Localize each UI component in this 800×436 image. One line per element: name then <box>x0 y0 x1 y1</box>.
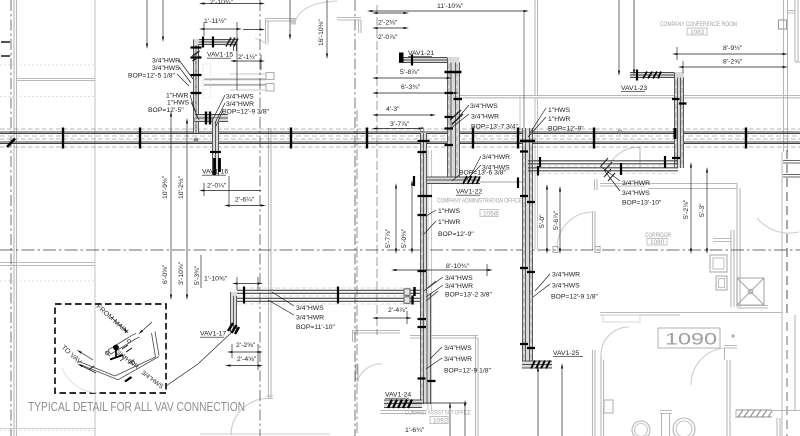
door arc bottom left of 1090 <box>601 327 629 355</box>
dim vertical 5'-3 3/4 <box>200 255 202 288</box>
svg-text:VAV1-17: VAV1-17 <box>200 331 226 338</box>
svg-text:5'-0⅜": 5'-0⅜" <box>401 228 408 248</box>
corridor bottom long wall y313 <box>600 313 783 316</box>
pipe C riser <box>522 128 533 366</box>
dim verticals VAV1-25 <box>537 371 539 436</box>
dim ref 16'-10 3/8 <box>326 0 328 54</box>
svg-text:2'-6¼": 2'-6¼" <box>235 197 255 204</box>
svg-text:3/4"HWR: 3/4"HWR <box>444 356 472 363</box>
wall under VAV1-15 room <box>230 74 266 90</box>
right lower dashed wall area <box>781 152 783 436</box>
svg-text:5'-3": 5'-3" <box>699 203 706 217</box>
svg-text:8'-2⅝": 8'-2⅝" <box>723 59 743 66</box>
room1090 area upper walls <box>519 96 521 136</box>
svg-text:VAV1-23: VAV1-23 <box>621 85 647 92</box>
dim 2'-1 1/2 <box>235 60 260 62</box>
hatch VAV1-25 black <box>531 361 550 369</box>
joint node upper <box>194 118 199 123</box>
svg-text:CORRIDOR: CORRIDOR <box>645 232 671 239</box>
svg-text:1092: 1092 <box>433 417 448 424</box>
dim refs top-left <box>146 0 148 44</box>
svg-text:2'-2⅝": 2'-2⅝" <box>236 342 256 349</box>
svg-text:BOP=13'-7 3/4": BOP=13'-7 3/4" <box>471 124 519 131</box>
detail arrow to vav lower <box>82 366 96 373</box>
link VAV1-22 to pipe C <box>480 181 522 183</box>
wall segment x337-361 top <box>337 18 361 34</box>
detail arrow to vav upper <box>81 353 93 361</box>
svg-text:5'-2⅞": 5'-2⅞" <box>683 199 690 219</box>
svg-text:BOP=12'-9": BOP=12'-9" <box>438 231 474 238</box>
right wall stubs dark <box>783 161 800 178</box>
svg-text:VAV1-22: VAV1-22 <box>456 189 482 196</box>
dim 8'-10 3/4 <box>396 269 488 271</box>
dim arrows at left grid <box>1 42 10 56</box>
pipe VAV1-15 top horizontal run <box>193 39 237 45</box>
lateral right dashes <box>528 166 678 174</box>
svg-text:6'-3¾": 6'-3¾" <box>401 84 421 91</box>
svg-text:8'-10¾": 8'-10¾" <box>446 263 470 270</box>
svg-text:3/4"HWR: 3/4"HWR <box>152 58 180 65</box>
main HWS pipe dashed top <box>0 128 800 130</box>
dim 2'-0 1/4 <box>204 190 261 192</box>
dim 8'-9 1/2 <box>677 53 783 55</box>
leader BOP 13-10 labels <box>600 166 620 191</box>
dim ref vertical x377 <box>376 5 378 335</box>
dim 2'-2 5/8 <box>232 351 258 353</box>
lateral dashed top <box>237 287 420 289</box>
svg-text:1"HWS: 1"HWS <box>548 107 571 114</box>
grid line horizontal y250 <box>0 249 800 251</box>
dim 1'-11 1/2 <box>204 28 237 30</box>
svg-text:BOP=12'-9 1/8": BOP=12'-9 1/8" <box>551 294 599 301</box>
svg-text:BOP=12'-9": BOP=12'-9" <box>548 126 584 133</box>
dim 8'-2 5/8 <box>683 66 783 68</box>
dim top-left cut <box>204 3 260 5</box>
conference right wall x785 <box>784 0 788 152</box>
leader VAV1-15 left labels <box>177 60 193 86</box>
svg-text:BOP=12'-9 1/8": BOP=12'-9 1/8" <box>444 368 492 375</box>
valve ticks VAV1-15 horizontal <box>203 37 213 48</box>
corridor top wall y96 <box>455 96 800 98</box>
valve ticks VAV1-16 branch <box>206 112 210 125</box>
svg-text:16'-10⅜": 16'-10⅜" <box>318 19 325 46</box>
wall vertical x535 lower <box>535 98 538 249</box>
dim 5'-8 7/8 <box>377 77 447 79</box>
room wall right of detail <box>352 330 400 342</box>
grid line vertical B x260 <box>259 0 261 436</box>
svg-text:1"HWR: 1"HWR <box>438 219 461 226</box>
pipe VAV1-21 horizontal run <box>399 57 459 63</box>
svg-text:10'-2½": 10'-2½" <box>177 175 185 199</box>
svg-text:VAV1-15: VAV1-15 <box>207 52 233 59</box>
svg-text:1090: 1090 <box>665 331 717 349</box>
hatch VAV1-15 riser <box>193 51 200 61</box>
hatch VAV1-22 black <box>463 176 480 184</box>
detail pipe HWS bottom segment <box>115 357 159 380</box>
valve black VAV1-21 left <box>399 53 404 63</box>
svg-text:COMPANY ADMINISTRATION OFFICE: COMPANY ADMINISTRATION OFFICE <box>437 198 522 205</box>
dim 4'-3 <box>377 114 431 116</box>
hatch VAV1-21 riser <box>450 110 463 124</box>
svg-text:3/4"HWS: 3/4"HWS <box>622 190 650 197</box>
svg-text:BOP=13'-2 3/8": BOP=13'-2 3/8" <box>445 292 493 299</box>
lateral dashes <box>237 296 420 304</box>
svg-text:COMPANY ASSIST SCT OFFICE: COMPANY ASSIST SCT OFFICE <box>405 410 471 417</box>
dim 1'-10 5/8 <box>237 283 258 285</box>
pipe VAV1-23 riser pair <box>674 72 684 168</box>
svg-text:3/4"HWS: 3/4"HWS <box>445 275 473 282</box>
wall top middle door jambs <box>266 19 297 44</box>
leader 12-9 1/8 labels <box>533 274 550 297</box>
walls around shaft <box>713 230 768 308</box>
dim verticals assist office <box>449 407 451 436</box>
door jamb boxes <box>266 73 274 80</box>
svg-text:1"HWR: 1"HWR <box>166 93 189 100</box>
svg-text:5'-0": 5'-0" <box>539 214 546 228</box>
svg-text:VAV1-21: VAV1-21 <box>408 50 434 57</box>
svg-text:11'-10⅝": 11'-10⅝" <box>437 3 464 10</box>
wall horizontal y263 left room <box>0 263 95 266</box>
main HWS pipe solid pair <box>0 132 800 134</box>
valve ticks VAV1-15 riser <box>191 48 202 94</box>
svg-text:1"HWS: 1"HWS <box>167 100 190 107</box>
dim verticals x547 x560 <box>546 189 548 249</box>
small circle node on band <box>618 130 622 134</box>
detail pipe TO VAV segment <box>78 361 118 380</box>
svg-text:2'-4⅝": 2'-4⅝" <box>237 356 257 363</box>
dim verticals mid rotated <box>395 188 397 249</box>
valve tick VAV1-16 drop <box>210 151 221 153</box>
hatch VAV1-15 pipe end <box>226 38 238 47</box>
joint node lower <box>194 138 199 143</box>
admin office door leaf <box>593 211 596 250</box>
detail pipe HWS right segment <box>152 332 160 358</box>
svg-text:1080: 1080 <box>650 239 665 246</box>
svg-text:10'-9⅜": 10'-9⅜" <box>162 175 169 199</box>
svg-text:2'-2⅜": 2'-2⅜" <box>378 20 398 27</box>
PIPE-LAYER <box>191 37 687 409</box>
main HWR pipe solid pair <box>0 142 800 144</box>
svg-text:5'-7⅞": 5'-7⅞" <box>385 228 392 248</box>
svg-text:COMPANY CONFERENCE ROOM: COMPANY CONFERENCE ROOM <box>660 21 737 28</box>
svg-text:VAV1-24: VAV1-24 <box>385 392 411 399</box>
main HWR pipe dashed <box>0 138 800 140</box>
svg-text:BOP=12'-5 1/8": BOP=12'-5 1/8" <box>128 73 176 80</box>
wall vertical x535 conference left <box>535 0 538 96</box>
wall vertical x737 <box>737 184 740 308</box>
hatch pipe A at junction <box>424 281 438 301</box>
svg-text:3/4"HWS: 3/4"HWS <box>226 94 254 101</box>
room 1090 big tag <box>658 328 720 348</box>
dim 2'-4 5/8 <box>230 365 258 367</box>
detail hatch small left <box>89 366 94 370</box>
svg-text:3/4"HWR: 3/4"HWR <box>445 283 473 290</box>
door arc bottom left middle <box>231 399 268 436</box>
leader lateral labels <box>268 292 294 315</box>
valve ticks at pipe A junction <box>413 287 415 305</box>
dim verticals right rotated <box>690 167 692 249</box>
svg-text:2'-0⅞": 2'-0⅞" <box>378 34 398 41</box>
leader VAV1-17 <box>166 332 232 386</box>
pipe lateral right lower HWR <box>528 168 678 171</box>
valve ticks lateral right <box>538 157 540 176</box>
pipe VAV1-22 horizontal <box>421 177 480 184</box>
valve ticks VAV1-21 riser <box>445 71 462 74</box>
dim ref vertical x524 <box>523 11 525 131</box>
pipe lateral right upper HWS <box>528 161 678 164</box>
svg-text:1'-11½": 1'-11½" <box>204 17 227 25</box>
wall 1090 door <box>724 346 737 361</box>
svg-text:2'-10¾": 2'-10¾" <box>210 0 234 6</box>
pipe A riser upper <box>420 133 427 293</box>
leader 1in HWS HWR mid <box>528 108 546 137</box>
svg-text:BOP=13'-6 3/8": BOP=13'-6 3/8" <box>459 170 507 177</box>
svg-text:3'-7⅞": 3'-7⅞" <box>390 121 410 128</box>
wall horizontal y79 left room <box>16 79 95 81</box>
detail flange circles <box>105 351 108 354</box>
svg-text:5'-3¾": 5'-3¾" <box>194 265 201 285</box>
pipe long lateral lower HWR <box>237 298 420 301</box>
svg-text:3/4"HWS: 3/4"HWS <box>444 345 472 352</box>
dotted ceiling lines left <box>0 65 95 431</box>
dim vertical 10'-9 3/8 <box>170 116 172 295</box>
far right wall <box>788 0 800 62</box>
top right door arc <box>757 218 799 233</box>
pipe VAV1-21 riser pair <box>447 57 460 177</box>
valve ticks long lateral mid <box>337 287 339 304</box>
DETAIL-LAYER <box>55 303 166 393</box>
admin office door arc <box>557 212 592 248</box>
wall centerline gray dashed <box>0 135 800 137</box>
hatched wall bottom right <box>736 410 772 417</box>
bottom right walls <box>736 315 800 436</box>
room 1083 tag <box>687 28 707 35</box>
elevator lobby shapes <box>710 255 727 272</box>
grid line vertical C x356 <box>354 0 356 436</box>
svg-text:4'-3": 4'-3" <box>386 106 400 113</box>
svg-text:3'-10⅝": 3'-10⅝" <box>178 261 185 285</box>
svg-text:3/4"HWR: 3/4"HWR <box>482 154 510 161</box>
elevator shaft with X <box>737 278 764 305</box>
hatch VAV1-16 end black <box>215 158 220 175</box>
wall vertical x95 <box>94 0 96 436</box>
bathroom walls <box>660 411 672 436</box>
svg-text:1083: 1083 <box>690 29 705 36</box>
node pipeA top <box>420 128 424 132</box>
BAND-LAYER <box>0 128 800 149</box>
svg-text:BOP=12'-5": BOP=12'-5" <box>148 107 184 114</box>
pipe VAV1-24 elbow <box>384 400 422 408</box>
corridor bottom wall y185 <box>600 184 737 189</box>
detail box dashed border <box>55 304 166 393</box>
room 1058 tag <box>480 210 498 217</box>
svg-text:1'-10⅝": 1'-10⅝" <box>204 276 228 283</box>
detail tick on bottom pipe <box>125 377 132 382</box>
grid line vertical A x11 <box>10 0 12 436</box>
stub VAV1-15 elbow down <box>234 45 237 52</box>
door arc right of band <box>608 147 640 168</box>
door arc top middle <box>296 1 337 20</box>
toilet 2 <box>673 418 695 436</box>
svg-text:2'-4⅞": 2'-4⅞" <box>388 307 408 314</box>
dim 2'-6 1/4 <box>229 205 261 207</box>
svg-text:1'-6¾": 1'-6¾" <box>405 427 425 434</box>
leader 12-9 bottom labels <box>426 347 442 369</box>
svg-text:BOP=11'-10": BOP=11'-10" <box>296 324 335 331</box>
hatch VAV1-23 black <box>643 72 661 79</box>
pipe VAV1-15 riser <box>193 39 199 133</box>
valve ticks pipe A <box>418 141 433 327</box>
valve tick VAV1-23 <box>636 70 638 81</box>
wall left vertical pair <box>14 0 17 436</box>
wall box on conference wall <box>779 20 787 29</box>
dim refs conference top <box>618 0 620 71</box>
vav24 room wall <box>380 411 426 414</box>
svg-text:1"HWR: 1"HWR <box>548 116 571 123</box>
svg-text:3/4"HWS: 3/4"HWS <box>470 103 498 110</box>
band bottom dashed <box>0 146 800 148</box>
pipe VAV1-23 horizontal <box>630 72 684 78</box>
svg-text:3/4"HWR: 3/4"HWR <box>552 272 580 279</box>
svg-text:2'-1½": 2'-1½" <box>238 53 258 61</box>
leader VAV1-21 labels <box>450 105 469 129</box>
svg-text:3/4"HWR: 3/4"HWR <box>296 315 324 322</box>
pipe VAV1-17 drop <box>230 292 237 332</box>
detail door arc faint <box>62 368 98 393</box>
svg-text:BOP=12'-9 3/8": BOP=12'-9 3/8" <box>222 109 270 116</box>
valve tick VAV1-22 <box>413 176 415 186</box>
pipe VAV1-25 elbow <box>522 361 552 368</box>
leader 1in HWS pipeA <box>424 210 436 234</box>
pipe A riser lower <box>420 293 431 404</box>
band valve ticks <box>63 128 746 149</box>
door arc room 1090 <box>691 348 724 385</box>
wall vertical x428 admin left <box>428 150 432 410</box>
valve boxes VAV1-24 branch <box>404 289 410 296</box>
leader 1in labels left <box>190 95 199 120</box>
dotted duct outline <box>203 64 211 98</box>
svg-text:BOP=13'-10": BOP=13'-10" <box>622 200 662 207</box>
leader VAV1-22 labels <box>452 156 481 181</box>
dim 2'-2 3/8 <box>377 12 404 14</box>
node dot room 1090 <box>731 334 734 337</box>
valve ticks VAV1-23 riser <box>672 99 687 104</box>
pipe VAV1-16 branch horizontal <box>195 114 228 122</box>
hatch lateral right <box>601 158 615 181</box>
detail valve symbol <box>115 349 117 357</box>
svg-text:5'-6⅞": 5'-6⅞" <box>553 210 560 230</box>
assist office right wall <box>593 350 596 436</box>
detail arrow from main <box>111 317 125 330</box>
detail hatch on HWR <box>122 345 132 352</box>
svg-text:TYPICAL DETAIL FOR ALL VAV CON: TYPICAL DETAIL FOR ALL VAV CONNECTION <box>28 400 245 414</box>
detail arrow top right <box>142 322 152 331</box>
svg-text:3/4"HWS: 3/4"HWS <box>152 65 180 72</box>
dim 2'-4 7/8 <box>377 317 407 319</box>
valve tick VAV1-21 <box>411 55 413 66</box>
svg-text:3/4"HWS: 3/4"HWS <box>296 305 324 312</box>
dim base line assist office <box>400 402 467 404</box>
svg-text:8'-9½": 8'-9½" <box>723 44 743 52</box>
band junction mark left edge <box>7 139 15 148</box>
dim vertical 10'-2 1/2 <box>186 123 188 295</box>
leader 3/4 labels right of VAV1-15 <box>213 95 225 126</box>
wall x594 admin right <box>595 179 598 190</box>
detail pipe HWR elbow cap <box>107 350 112 356</box>
bottom edge walls <box>0 429 330 435</box>
room 1080 tag <box>647 239 667 246</box>
dim 11'-10 5/8 <box>372 10 524 12</box>
svg-text:1058: 1058 <box>483 210 498 217</box>
hatch VAV1-17 end black <box>228 323 239 334</box>
svg-text:5'-8⅞": 5'-8⅞" <box>400 69 420 76</box>
middle vertical wall x269 <box>267 128 274 399</box>
assist office walls <box>410 335 478 436</box>
hatch VAV1-24 black <box>388 400 412 409</box>
door arc x357 <box>357 364 382 382</box>
detail pipe HWR inner segment <box>108 334 140 355</box>
wall vertical x727 bottom <box>727 360 730 436</box>
valve ticks pipe C <box>520 140 535 143</box>
svg-text:1"HWS: 1"HWS <box>438 208 461 215</box>
svg-text:3/4"HWR: 3/4"HWR <box>226 101 254 108</box>
pipe VAV1-16 drop <box>212 118 219 175</box>
svg-text:2'-0¼": 2'-0¼" <box>207 183 227 190</box>
svg-text:VAV1-25: VAV1-25 <box>553 350 579 357</box>
wall x600 bottom <box>601 355 604 436</box>
wall stub x640 y148 <box>639 148 641 168</box>
svg-text:3/4"HWS: 3/4"HWS <box>552 283 580 290</box>
leader 13-2 labels <box>426 277 443 297</box>
valve ticks long lateral left <box>243 287 245 304</box>
room 1092 tag <box>430 417 448 424</box>
sink box bottom left of 1090 <box>604 400 613 413</box>
svg-text:3/4"HWR: 3/4"HWR <box>622 180 650 187</box>
dim 2'-0 7/8 <box>377 27 404 29</box>
dim 6'-3 3/4 <box>377 92 454 94</box>
dim 3'-7 7/8 <box>377 128 419 130</box>
svg-text:3/4"HWR: 3/4"HWR <box>471 114 499 121</box>
svg-text:6'-0⅝": 6'-0⅝" <box>162 264 169 284</box>
svg-text:VAV1-16: VAV1-16 <box>202 169 228 176</box>
toilet 1 <box>632 421 650 436</box>
pipe long lateral upper HWS <box>237 290 420 293</box>
